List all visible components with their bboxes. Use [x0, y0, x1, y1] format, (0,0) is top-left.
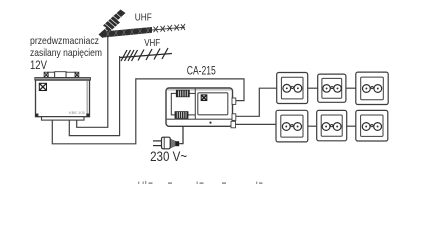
svg-text:12V: 12V: [30, 58, 47, 72]
svg-text:KBE 105: KBE 105: [69, 110, 86, 115]
svg-text:zasilany napięciem: zasilany napięciem: [30, 47, 102, 59]
svg-text:CA-215: CA-215: [187, 64, 216, 78]
svg-text:230 V~: 230 V~: [150, 149, 187, 164]
svg-text:UHF: UHF: [135, 12, 152, 24]
svg-text:VHF: VHF: [144, 37, 160, 49]
svg-text:przedwzmacniacz: przedwzmacniacz: [30, 35, 99, 47]
